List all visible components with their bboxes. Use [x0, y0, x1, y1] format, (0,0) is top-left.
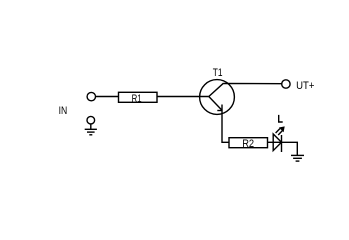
resistor R1 [119, 92, 158, 105]
svg-text:T1: T1 [213, 67, 223, 79]
svg-text:R1: R1 [132, 93, 142, 105]
svg-text:IN: IN [59, 105, 68, 117]
LED L [273, 115, 285, 152]
node UT+ terminal [282, 80, 315, 92]
svg-text:UT+: UT+ [296, 80, 314, 92]
wire LED L cathode to ground [282, 142, 298, 155]
wire T1 collector to UT+ terminal [224, 83, 282, 85]
node IN terminal [59, 92, 96, 117]
wire R1 to T1 base [157, 96, 209, 98]
wire T1 emitter down and over to R2 [222, 111, 229, 143]
svg-text:R2: R2 [242, 138, 254, 150]
ground (right) [291, 155, 304, 161]
ground terminal (left, below IN) [85, 116, 97, 134]
wire IN terminal to R1 [96, 96, 120, 98]
resistor R2 [229, 138, 268, 150]
transistor T1 [200, 67, 235, 114]
wire R2 to LED L anode [268, 141, 274, 143]
